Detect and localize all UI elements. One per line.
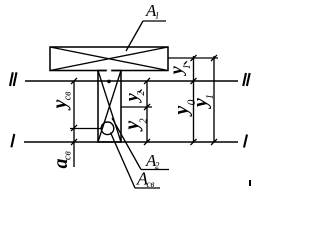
vertical element A2 outline bbox=[98, 71, 121, 143]
plate A1 diagonal 2 bbox=[50, 47, 168, 71]
prime mark of y'2 bbox=[139, 90, 142, 93]
tick at x193 y142 bbox=[191, 139, 197, 145]
axis label II right bbox=[243, 73, 250, 86]
gap in plate bottom edge bbox=[107, 70, 111, 72]
weld circle bbox=[101, 122, 114, 135]
axis II-II line bbox=[25, 80, 238, 82]
prime mark of y'1 bbox=[184, 61, 187, 64]
weld level extension line bbox=[70, 128, 101, 130]
leader line A2 bbox=[112, 118, 141, 170]
dimension line x193 (y'1 / y0) bbox=[193, 56, 195, 142]
label underline A2 bbox=[141, 169, 169, 171]
svg-text:2: 2 bbox=[136, 91, 147, 96]
svg-text:1: 1 bbox=[182, 64, 193, 69]
tick at x193 y81 bbox=[191, 78, 197, 84]
svg-text:2: 2 bbox=[138, 118, 149, 123]
vertical element A2 diagonal 1 bbox=[98, 71, 121, 143]
svg-text:св: св bbox=[63, 91, 74, 100]
leader line A1 bbox=[126, 21, 143, 51]
axis label II left bbox=[10, 72, 17, 86]
dimension line x214 (y1) bbox=[213, 56, 215, 142]
tick at x147 y107 bbox=[144, 104, 150, 110]
edge mark bottom right bbox=[249, 180, 251, 186]
element centroid extension line bbox=[121, 106, 152, 108]
tick at x193 y58 bbox=[191, 55, 197, 61]
tick at x214 y58 bbox=[211, 55, 217, 61]
axis label I left bbox=[11, 134, 14, 147]
axis I-I line bbox=[24, 141, 238, 143]
label underline A1 bbox=[143, 20, 166, 22]
plate A1 diagonal 1 bbox=[50, 47, 168, 71]
axis label I right bbox=[244, 135, 247, 148]
tick at x74 y81 bbox=[71, 78, 77, 84]
tick at x147 y142 bbox=[144, 139, 150, 145]
vertical element A2 diagonal 2 bbox=[98, 71, 121, 143]
svg-text:1: 1 bbox=[205, 94, 216, 99]
centroid dot on axis II bbox=[107, 80, 111, 84]
tick at x74 y128 bbox=[71, 125, 77, 131]
tick at x74 y142 bbox=[71, 139, 77, 145]
plate centroid extension line bbox=[168, 57, 218, 59]
dimension line x74 (ysv / asv) bbox=[73, 81, 75, 167]
plate A1 outline bbox=[50, 47, 168, 71]
tick at x147 y81 bbox=[144, 78, 150, 84]
label underline Asv bbox=[135, 187, 160, 189]
tick at x214 y142 bbox=[211, 139, 217, 145]
dimension line x147 (y'2 / y2) bbox=[146, 81, 148, 142]
svg-text:св: св bbox=[63, 151, 74, 160]
leader line Asv bbox=[111, 133, 136, 189]
